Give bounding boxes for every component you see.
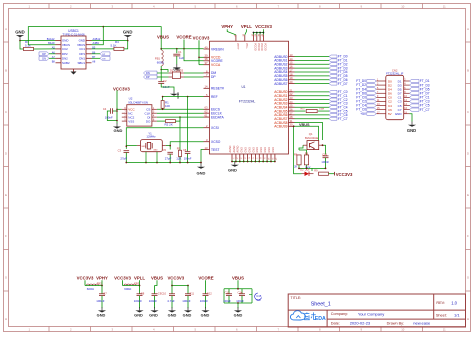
svg-text:GND: GND — [168, 313, 177, 318]
svg-text:17: 17 — [290, 68, 293, 72]
svg-text:C5: C5 — [163, 148, 167, 152]
resistor R2 2K — [157, 117, 180, 127]
svg-text:DP: DP — [102, 54, 106, 56]
svg-text:Sheet:: Sheet: — [436, 313, 447, 317]
svg-text:VCCIO: VCCIO — [257, 43, 260, 51]
svg-text:GND: GND — [260, 147, 263, 153]
svg-text:Q1: Q1 — [309, 132, 313, 136]
svg-text:U1: U1 — [242, 85, 246, 89]
svg-text:VSS: VSS — [128, 119, 134, 123]
svg-text:AGND: AGND — [233, 145, 236, 152]
U1 bottom pins GND — [229, 145, 277, 160]
capacitor C14 100nF — [236, 289, 245, 303]
svg-text:GND: GND — [241, 147, 244, 153]
wire bulk caps to GND — [237, 303, 239, 308]
svg-text:VCC3V3: VCC3V3 — [167, 275, 184, 280]
svg-text:31: 31 — [290, 119, 293, 123]
svg-text:VCC3V3: VCC3V3 — [193, 35, 210, 40]
net flag VCORE (decap) — [198, 275, 213, 285]
wire rail to LED row — [311, 168, 313, 171]
capacitor C2 10nF — [158, 79, 170, 89]
wire R4 to GND — [124, 41, 128, 49]
svg-text:XCSI: XCSI — [211, 126, 219, 130]
svg-text:37: 37 — [205, 61, 208, 65]
U1 right pins SUSPEND/PWREN — [274, 119, 294, 129]
svg-text:VBUS: VBUS — [232, 275, 244, 280]
junction REF-C6 branch — [187, 96, 189, 98]
ground below U1 — [228, 162, 239, 173]
capacitor C1 1uF — [173, 49, 184, 60]
wire bulk cap loop — [224, 288, 252, 304]
svg-text:14: 14 — [205, 85, 208, 89]
svg-text:11: 11 — [443, 5, 446, 9]
svg-text:VCORE: VCORE — [176, 35, 191, 40]
svg-text:C: C — [5, 110, 7, 114]
wire VCCD stub — [199, 56, 204, 58]
svg-text:24: 24 — [290, 100, 293, 104]
svg-text:DP: DP — [42, 53, 46, 56]
wire VCC to U2 — [117, 108, 122, 110]
wire crystal right — [166, 146, 170, 150]
junction ESD node — [160, 69, 162, 71]
svg-text:CC1: CC1 — [79, 47, 85, 51]
svg-text:GND: GND — [141, 146, 146, 148]
net flag VPHY (filter) — [96, 275, 108, 285]
net flag VCC3V3 (EEPROM) — [113, 86, 130, 123]
svg-text:VBUS: VBUS — [299, 123, 310, 127]
svg-text:C3: C3 — [118, 148, 122, 152]
capacitor C15 1uF — [249, 293, 262, 302]
connector CN2 FT2232HL_IF — [376, 69, 409, 120]
svg-text:100nF: 100nF — [134, 299, 142, 303]
svg-text:A: A — [467, 27, 469, 31]
svg-text:F: F — [467, 234, 469, 238]
wire VBUS right drop — [92, 27, 104, 45]
svg-text:26: 26 — [290, 107, 293, 111]
wire EEDATA — [157, 116, 204, 118]
svg-text:FT_C7: FT_C7 — [338, 117, 348, 121]
svg-text:EDA: EDA — [315, 316, 326, 322]
wire U1 bottom GND rail — [231, 160, 276, 163]
ground C10 — [168, 307, 177, 317]
svg-text:REF: REF — [211, 95, 218, 99]
svg-text:GND: GND — [149, 313, 158, 318]
svg-text:XCSO: XCSO — [211, 140, 221, 144]
wire VBUS top to FB1 node — [103, 27, 161, 40]
svg-text:1/1: 1/1 — [454, 312, 460, 317]
ports FT_D0-FT_D7 — [329, 55, 348, 86]
svg-text:D: D — [5, 151, 7, 155]
svg-text:100nF: 100nF — [105, 115, 113, 119]
svg-text:R5: R5 — [177, 146, 181, 150]
capacitor C5 27pF — [163, 148, 173, 163]
ground C9 — [149, 307, 158, 317]
svg-text:G: G — [467, 276, 469, 280]
svg-text:GND: GND — [173, 68, 181, 72]
wire EECS — [157, 108, 204, 110]
svg-text:C10: C10 — [161, 291, 166, 295]
ports CN2 right — [410, 79, 430, 112]
resistor R5 12K — [176, 117, 181, 162]
svg-text:VCCIO: VCCIO — [260, 43, 263, 51]
net flag GND (right of USBC1) — [123, 30, 133, 41]
svg-text:63: 63 — [205, 106, 208, 110]
svg-text:VPHY: VPHY — [96, 275, 108, 280]
svg-text:FT2232HL: FT2232HL — [239, 99, 256, 103]
wire USBC1 GND right — [92, 40, 128, 42]
svg-text:600Ω: 600Ω — [87, 287, 95, 291]
svg-text:12MHz: 12MHz — [146, 135, 156, 139]
ports CN2 left — [356, 79, 376, 116]
svg-text:DN: DN — [146, 71, 150, 75]
svg-text:GND: GND — [134, 313, 143, 318]
svg-text:GND: GND — [15, 30, 25, 35]
wire TEST to GND — [200, 150, 203, 164]
junction VCORE rail — [176, 48, 185, 50]
wire FB1 to ESD node — [160, 66, 162, 81]
svg-text:Date:: Date: — [331, 321, 340, 325]
svg-text:VPLL: VPLL — [241, 24, 252, 29]
svg-text:12K: 12K — [176, 157, 181, 161]
ground C8 — [134, 307, 143, 317]
svg-text:H: H — [467, 317, 469, 321]
capacitor C13 100uF — [223, 289, 232, 303]
junction crystal right — [169, 145, 171, 147]
svg-text:SUB2: SUB2 — [62, 61, 70, 65]
ports FT_C0-FT_C7 — [329, 90, 348, 121]
svg-text:R6: R6 — [294, 152, 298, 156]
resistor R6 2K — [294, 152, 301, 168]
svg-text:DN1: DN1 — [79, 56, 85, 60]
resistor R3 5.1K — [24, 40, 34, 51]
wire VCORE to pin — [184, 49, 204, 61]
svg-text:GND: GND — [272, 147, 275, 153]
net flag GND (left of USBC1) — [15, 30, 25, 41]
svg-text:VCORE: VCORE — [198, 275, 213, 280]
svg-text:DP2: DP2 — [62, 52, 68, 56]
svg-text:61: 61 — [205, 114, 208, 118]
wire VBUS rail down to LED — [293, 125, 302, 173]
svg-text:14: 14 — [290, 57, 293, 61]
U1 left pins — [204, 45, 225, 151]
svg-text:EEDATA: EEDATA — [211, 115, 225, 119]
svg-text:VCC3V3: VCC3V3 — [77, 275, 94, 280]
svg-text:C11: C11 — [189, 291, 194, 295]
wire VCCA stub — [199, 64, 204, 66]
svg-text:VREGIN: VREGIN — [211, 47, 224, 51]
JLCEDA logo — [290, 311, 326, 323]
svg-text:F: F — [5, 234, 7, 238]
svg-text:21: 21 — [290, 88, 293, 92]
wire DN to ESD — [157, 72, 169, 74]
svg-text:27: 27 — [290, 111, 293, 115]
wire CN2 GND — [410, 114, 413, 122]
svg-text:D: D — [467, 151, 469, 155]
capacitor C3 27pF — [118, 148, 129, 162]
wire crystal ground rail — [125, 162, 201, 164]
svg-text:C8: C8 — [141, 291, 145, 295]
ferrite bead FB1 600ohm — [155, 49, 165, 66]
svg-text:GND: GND — [183, 313, 192, 318]
svg-text:15: 15 — [290, 61, 293, 65]
wire FB2 node — [85, 285, 103, 287]
svg-text:600Ω: 600Ω — [124, 287, 132, 291]
svg-text:G: G — [5, 276, 7, 280]
wire Q1 base — [299, 145, 303, 150]
svg-text:100R: 100R — [319, 108, 325, 110]
svg-text:VBUS: VBUS — [157, 35, 169, 40]
wire XCSI — [126, 128, 203, 147]
svg-text:GND: GND — [201, 313, 210, 318]
capacitor C10 4.7uF — [161, 286, 175, 309]
svg-text:GND: GND — [252, 147, 255, 153]
net flag VPLL (top of U1) — [241, 24, 252, 35]
wires ACBUS to ports — [295, 92, 330, 119]
IC U1 FT2232HL body — [210, 41, 289, 154]
svg-text:GND: GND — [123, 30, 133, 35]
svg-text:E: E — [467, 193, 469, 197]
svg-text:DN: DN — [102, 58, 106, 60]
svg-text:40: 40 — [205, 45, 208, 49]
svg-text:VPHY: VPHY — [221, 24, 233, 29]
svg-text:C6: C6 — [183, 148, 187, 152]
svg-text:GND: GND — [176, 92, 180, 98]
EEPROM U2 93LC46BT-I/SN — [122, 97, 157, 127]
svg-text:GND: GND — [153, 149, 158, 151]
svg-text:GND: GND — [245, 147, 248, 153]
U1 right pins ACBUS0-7 — [274, 88, 294, 121]
svg-text:RESET#: RESET# — [211, 87, 224, 91]
svg-text:DN2: DN2 — [62, 56, 68, 60]
svg-text:16: 16 — [290, 65, 293, 69]
ground below EEPROM rail — [113, 123, 123, 133]
svg-text:1.0: 1.0 — [451, 300, 457, 305]
wire DP to ESD — [157, 76, 169, 78]
wire VCC3V3 decap node — [171, 285, 189, 287]
svg-text:1uF: 1uF — [179, 56, 184, 60]
svg-text:FB2: FB2 — [97, 281, 102, 285]
svg-text:B: B — [5, 69, 7, 73]
svg-text:100nF: 100nF — [184, 157, 192, 161]
svg-text:VCCA: VCCA — [211, 63, 221, 67]
svg-text:28: 28 — [290, 115, 293, 119]
svg-text:SBU1: SBU1 — [77, 61, 85, 65]
svg-text:AGND: AGND — [229, 145, 232, 152]
svg-text:C: C — [467, 110, 469, 114]
svg-text:93LC46BT-I/SN: 93LC46BT-I/SN — [128, 100, 148, 104]
wire R3 to CC2 — [34, 48, 56, 50]
capacitor C4 100nF — [103, 107, 118, 121]
svg-text:100nF: 100nF — [236, 299, 244, 303]
junction VBUS top wire — [103, 26, 105, 28]
svg-text:C14: C14 — [238, 290, 243, 294]
port DN1 (USBC right) — [92, 56, 111, 60]
svg-text:C2: C2 — [163, 79, 167, 83]
wire FB3 node — [123, 285, 141, 287]
svg-text:100nF: 100nF — [182, 299, 190, 303]
ferrite bead FB2 600ohm — [87, 281, 103, 291]
svg-text:22: 22 — [290, 92, 293, 96]
svg-text:27pF: 27pF — [165, 157, 172, 161]
svg-text:+5V: +5V — [360, 112, 367, 116]
LED D2 — [300, 168, 313, 176]
wire CC1 to R4 — [92, 48, 114, 50]
svg-text:GND: GND — [395, 112, 403, 116]
ESD protection D1 SRV05-4 — [169, 68, 185, 78]
capacitor C16 100nF — [321, 153, 329, 169]
svg-text:GND: GND — [248, 147, 251, 153]
svg-text:VBUS: VBUS — [151, 275, 163, 280]
svg-text:100nF: 100nF — [321, 160, 329, 164]
net label VBUS (sense wire) — [299, 123, 310, 127]
net flag VCC3V3 (VPLL filter) — [114, 275, 131, 285]
svg-text:100nF: 100nF — [200, 299, 208, 303]
ferrite bead FB3 600ohm — [124, 281, 140, 291]
svg-text:100nF: 100nF — [96, 299, 104, 303]
net flag VPLL (filter) — [134, 275, 145, 285]
wire ESD to DM pin — [184, 72, 204, 74]
svg-text:E: E — [5, 193, 7, 197]
junction EEDATA-R2 — [179, 116, 181, 118]
ground C7 — [97, 307, 106, 317]
port DP2 (USBC left) — [39, 52, 56, 56]
svg-text:DO: DO — [146, 119, 151, 123]
port DN (to ESD) — [144, 71, 158, 75]
svg-text:BLM-64GE: BLM-64GE — [305, 136, 319, 140]
svg-text:GND: GND — [407, 128, 416, 133]
svg-text:DP: DP — [211, 75, 216, 79]
svg-text:600Ω: 600Ω — [157, 61, 165, 65]
svg-text:GND: GND — [264, 147, 267, 153]
svg-text:FT_C7: FT_C7 — [420, 108, 430, 112]
U1 top pins VPHY VPLL VCCIO — [234, 33, 266, 50]
capacitor C7 100nF — [96, 286, 107, 309]
junction crystal left — [126, 145, 128, 147]
svg-text:18: 18 — [290, 72, 293, 76]
junction VCCD — [198, 57, 200, 59]
transistor Q1 — [303, 132, 323, 150]
net flag VCC3V3 (top of U1) — [253, 24, 273, 35]
capacitor C6 100nF — [183, 97, 192, 163]
net flag VBUS — [157, 35, 169, 40]
svg-text:C7: C7 — [103, 291, 107, 295]
svg-text:TYPE-C-31-M-06: TYPE-C-31-M-06 — [62, 32, 85, 36]
svg-text:13: 13 — [205, 146, 208, 150]
svg-text:C13: C13 — [225, 290, 230, 294]
svg-text:A: A — [5, 27, 7, 31]
svg-text:TITLE:: TITLE: — [291, 296, 302, 300]
svg-text:GND: GND — [256, 147, 259, 153]
port DP1 (USBC right) — [92, 52, 111, 56]
svg-text:Your Company: Your Company — [358, 311, 384, 316]
svg-text:20: 20 — [290, 80, 293, 84]
svg-text:FB3: FB3 — [134, 281, 139, 285]
junction VBUS-VREGIN — [160, 48, 162, 50]
svg-text:CC2: CC2 — [62, 47, 68, 51]
svg-text:new.ease: new.ease — [413, 321, 431, 326]
svg-text:Company:: Company: — [331, 312, 348, 316]
resistor R4 5.1K — [111, 40, 124, 51]
svg-text:R8: R8 — [305, 151, 309, 155]
port DP (to ESD) — [144, 75, 158, 79]
net flag VCC3V3 (left of U1) — [193, 35, 210, 64]
svg-text:VPHY: VPHY — [236, 43, 239, 50]
wire GND down to R3 — [20, 41, 24, 49]
wire divider ground rail — [298, 168, 326, 170]
wire GND to USBC1 pin — [20, 40, 56, 42]
svg-text:GND: GND — [97, 313, 106, 318]
wires ADBUS0-7 to ports — [295, 57, 330, 84]
title block — [288, 294, 465, 327]
svg-text:GND: GND — [234, 313, 243, 318]
svg-text:GND: GND — [114, 128, 123, 133]
svg-text:25: 25 — [290, 104, 293, 108]
svg-text:38: 38 — [205, 57, 208, 61]
wire ACBUS9 VBUS sense — [295, 126, 319, 140]
svg-text:C1: C1 — [178, 50, 182, 54]
junction GND right — [127, 40, 129, 42]
svg-text:5.1K: 5.1K — [111, 43, 117, 47]
USB-C connector USBC1 — [47, 29, 101, 75]
wire VBUS left loop — [28, 27, 103, 45]
resistor R9 1K — [314, 169, 334, 175]
svg-text:Sheet_1: Sheet_1 — [311, 301, 331, 307]
svg-text:GND: GND — [197, 171, 206, 176]
svg-text:B: B — [467, 69, 469, 73]
net flag VBUS (bulk caps) — [232, 275, 244, 289]
wire ESD to DP pin — [184, 76, 204, 78]
svg-text:C12: C12 — [207, 291, 212, 295]
svg-text:4.7uF: 4.7uF — [167, 299, 175, 303]
svg-text:10: 10 — [401, 5, 405, 9]
svg-text:VCC3V3: VCC3V3 — [113, 86, 130, 91]
svg-text:10K: 10K — [165, 104, 170, 108]
svg-text:ADBUS7: ADBUS7 — [274, 82, 287, 86]
wire ACBUS8 to divider — [295, 123, 323, 141]
ground bulk caps — [234, 307, 243, 317]
svg-text:VCC3V3: VCC3V3 — [255, 24, 272, 29]
svg-text:5V: 5V — [388, 112, 392, 116]
svg-text:R2 2K: R2 2K — [165, 123, 173, 127]
U1 right pins ADBUS0-7 — [274, 53, 294, 86]
wire EECLK — [157, 112, 204, 114]
svg-text:C16: C16 — [322, 153, 327, 157]
svg-text:ACBUS9: ACBUS9 — [274, 125, 287, 129]
svg-text:27pF: 27pF — [120, 157, 127, 161]
ground below C1 — [173, 64, 181, 71]
net flag VPHY (top of U1) — [221, 24, 236, 35]
resistor R10 (series in ACBUS5) — [300, 108, 324, 112]
capacitor C8 100nF — [134, 286, 145, 309]
svg-text:VPLL: VPLL — [134, 275, 145, 280]
svg-text:VCC3V3: VCC3V3 — [336, 172, 353, 177]
wire VBUS node to VREGIN rail — [161, 40, 203, 49]
svg-text:100uF: 100uF — [223, 299, 231, 303]
svg-text:Drawn By:: Drawn By: — [387, 321, 405, 325]
wire Q1 collector to C16 — [322, 144, 326, 154]
svg-text:DP1: DP1 — [79, 52, 85, 56]
net flag VCC3V3 (LED) — [335, 172, 354, 177]
svg-text:DN: DN — [42, 58, 46, 61]
resistor R1 10K — [161, 97, 170, 110]
wire REF — [162, 96, 204, 98]
svg-text:VCCIO: VCCIO — [254, 43, 257, 51]
svg-text:2020-02-23: 2020-02-23 — [350, 321, 371, 326]
svg-text:FT_D7: FT_D7 — [338, 82, 348, 86]
wire C1 to GND — [176, 56, 178, 65]
junction EEPROM VCC — [116, 109, 118, 111]
net flag VCORE — [176, 35, 191, 49]
